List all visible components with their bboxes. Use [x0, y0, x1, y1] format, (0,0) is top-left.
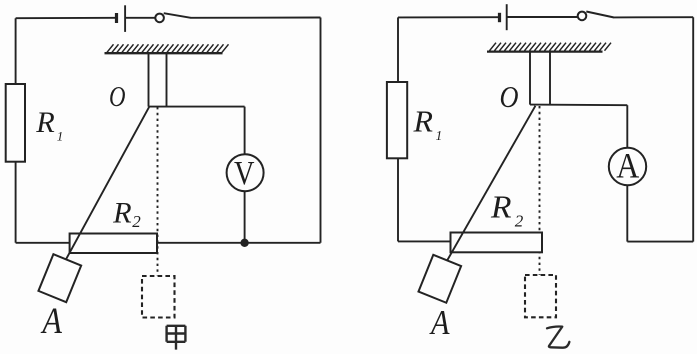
resistor R1 (left circuit)	[6, 84, 25, 162]
dashed target box (right)	[525, 275, 556, 317]
wire: column bottom to ammeter branch corner	[530, 104, 627, 107]
voltmeter V	[227, 154, 264, 192]
wire: switch to top-right corner (left circuit)	[191, 17, 321, 19]
dotted plumb line from O (left)	[157, 107, 159, 276]
svg-text:O: O	[109, 81, 126, 113]
ceiling support (right): hatch strokes	[490, 43, 612, 51]
block A (right circuit)	[418, 255, 461, 303]
wire: battery to switch	[126, 17, 155, 19]
wire: left circuit top, battery to top-left corner	[16, 17, 116, 19]
svg-text:1: 1	[436, 128, 443, 143]
svg-text:2: 2	[132, 212, 141, 231]
svg-text:A: A	[41, 300, 63, 341]
battery G2 long plate	[506, 4, 508, 30]
wire: battery to switch (right)	[508, 16, 578, 18]
wire: ammeter to bottom-right corner	[626, 185, 628, 241]
dashed target box (left)	[142, 276, 175, 318]
ammeter A	[609, 146, 646, 186]
switch S1 blade	[164, 13, 191, 18]
wire: left side down to R1	[15, 18, 17, 84]
label O (left)	[109, 81, 126, 113]
ceiling support (left): beam line	[105, 52, 223, 54]
label A (right)	[429, 303, 450, 342]
wire: bottom of right circuit	[627, 241, 693, 243]
resistor R1 (right circuit)	[387, 82, 407, 158]
wire: down to voltmeter	[244, 107, 246, 155]
wire: voltmeter to bottom wire	[244, 191, 246, 243]
ceiling support (right): beam line	[487, 50, 603, 52]
ceiling support (left): hatch strokes	[107, 44, 229, 52]
svg-text:R: R	[412, 104, 433, 139]
wire: down to ammeter	[626, 105, 628, 148]
wire: bottom-left corner to rod R2	[16, 242, 70, 244]
wire: right side (right circuit)	[692, 17, 694, 241]
wire: rod to bottom-right corner (left circuit)	[157, 242, 321, 244]
wire: left side down to R1 (right circuit)	[397, 17, 399, 82]
wire: right side (left circuit)	[320, 18, 322, 243]
svg-text:R: R	[490, 189, 512, 225]
label 甲 (drawn strokes)	[167, 326, 186, 350]
wire: R1 to bottom-left corner	[15, 162, 17, 243]
dotted plumb line from O (right)	[539, 106, 541, 275]
label R1 (right)	[412, 104, 442, 143]
lever arm (right)	[447, 106, 535, 261]
wire: bottom-left corner to rod (right circuit)	[398, 240, 451, 242]
svg-text:R: R	[35, 106, 55, 139]
svg-text:2: 2	[515, 211, 524, 230]
label R2 (right)	[490, 189, 524, 231]
battery G1 long plate	[124, 5, 126, 32]
label O (right)	[500, 79, 519, 114]
label 乙 (drawn strokes)	[547, 326, 569, 347]
battery G1 short plate	[115, 13, 118, 23]
wire: column bottom to voltmeter branch corner	[149, 106, 245, 108]
svg-text:O: O	[500, 79, 519, 114]
switch S2 blade	[586, 12, 613, 18]
label R2 (left)	[112, 196, 141, 231]
rheostat rod R2 (left circuit)	[70, 234, 157, 254]
wire: right circuit top, battery to top-left corner	[398, 16, 499, 18]
wire: switch to top-right corner (right circuit)	[613, 16, 693, 18]
label R1 (left)	[35, 106, 63, 143]
svg-text:A: A	[429, 303, 450, 342]
svg-text:A: A	[616, 146, 639, 186]
switch S1 pivot circle	[155, 14, 164, 23]
rheostat rod R2 (right circuit)	[451, 233, 543, 253]
svg-text:V: V	[234, 155, 255, 192]
lever arm (left)	[66, 107, 149, 260]
support column (right)	[530, 53, 550, 105]
battery G2 short plate	[498, 13, 501, 22]
svg-text:R: R	[112, 196, 132, 229]
junction node dot (left circuit)	[240, 239, 248, 247]
switch S2 pivot circle	[578, 12, 587, 21]
svg-text:1: 1	[57, 129, 64, 144]
label A (left)	[41, 300, 63, 341]
wire: R1 to bottom-left corner (right circuit)	[397, 158, 399, 241]
block A (left circuit)	[38, 254, 81, 302]
support column (left)	[149, 54, 167, 107]
